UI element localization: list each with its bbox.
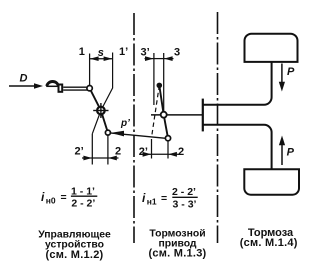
- svg-text:=: =: [61, 192, 67, 204]
- svg-text:2 - 2’: 2 - 2’: [71, 198, 95, 210]
- pedal pad (dome): [47, 82, 59, 86]
- caption middle: [149, 228, 207, 259]
- force P arrow top: [281, 64, 283, 85]
- support anchor bar: [202, 99, 204, 132]
- svg-text:1’: 1’: [119, 46, 128, 58]
- caliper frame top: [203, 62, 272, 105]
- dimension 2'-2 (lever 1): [92, 157, 108, 159]
- lever 2 middle joint: [161, 112, 167, 118]
- divider line left (between sections): [133, 13, 135, 243]
- connecting rod between levers: [110, 133, 166, 138]
- svg-text:3’: 3’: [141, 46, 150, 58]
- extension line 2' (lever 2): [151, 139, 153, 159]
- lever 1 lower joint: [105, 130, 110, 135]
- svg-text:s: s: [98, 47, 104, 59]
- pedal block: [59, 85, 63, 92]
- lever 1 fixed pivot (crosshair): [97, 107, 105, 115]
- extension line 2 (lever 2): [167, 141, 169, 159]
- svg-text:P: P: [287, 147, 295, 159]
- divider line right (between sections): [217, 12, 219, 243]
- lever 2 top pivot (filled): [157, 83, 163, 89]
- lever 1 (applied position): [90, 88, 108, 132]
- svg-text:(см. М.1.2): (см. М.1.2): [46, 249, 104, 261]
- extension line 1' / released lever: [92, 53, 112, 134]
- dimension s: [90, 58, 113, 60]
- extension line 3': [153, 53, 155, 105]
- svg-text:2: 2: [178, 146, 184, 158]
- svg-text:2’: 2’: [75, 146, 84, 158]
- svg-text:(см. М.1.4): (см. М.1.4): [240, 237, 298, 249]
- svg-text:p’: p’: [120, 118, 130, 129]
- svg-text:=: =: [161, 193, 167, 205]
- caption right: [240, 227, 298, 249]
- extension line 2: [107, 135, 109, 164]
- svg-text:3 - 3’: 3 - 3’: [173, 199, 197, 211]
- formula i_H0: [41, 185, 95, 209]
- lever 2 released position (dashed): [152, 85, 160, 136]
- svg-text:н1: н1: [147, 196, 157, 206]
- p' arrowhead: [111, 131, 124, 137]
- force P arrow bottom: [281, 143, 283, 165]
- svg-text:P: P: [287, 66, 295, 78]
- brake pad bottom: [244, 169, 299, 194]
- svg-text:2’: 2’: [139, 146, 148, 158]
- svg-text:D: D: [20, 73, 28, 85]
- pushrod (double line): [63, 86, 87, 88]
- lever 2 (applied position): [159, 85, 168, 138]
- lever 2 bottom joint: [165, 136, 170, 141]
- svg-text:1: 1: [79, 46, 85, 58]
- svg-text:3: 3: [174, 46, 180, 58]
- svg-text:2 - 2’: 2 - 2’: [172, 186, 196, 198]
- brake pad top: [245, 34, 298, 62]
- caliper frame bottom: [203, 125, 272, 170]
- pushrod joint circle: [87, 86, 92, 91]
- svg-text:(см. М.1.3): (см. М.1.3): [149, 248, 207, 260]
- extension line 3: [163, 53, 165, 111]
- extension line 2': [91, 134, 93, 165]
- caption left: [38, 229, 111, 261]
- svg-text:2: 2: [115, 146, 121, 158]
- dimension 3'-3: [154, 58, 164, 60]
- extension line 1: [89, 54, 91, 86]
- formula i_H1: [142, 186, 197, 210]
- dimension 2'-2 (lever 2): [152, 153, 169, 155]
- force D arrow: [9, 85, 36, 87]
- output rod to support: [151, 114, 202, 116]
- svg-text:н0: н0: [46, 195, 56, 205]
